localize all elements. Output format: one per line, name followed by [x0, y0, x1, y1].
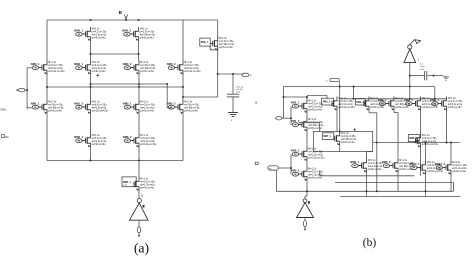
svg-text:M=1 2u: M=1 2u	[140, 179, 149, 181]
svg-text:ad=1.2p a=1p: ad=1.2p a=1p	[452, 168, 467, 170]
transistor NM2_2	[167, 100, 200, 114]
svg-text:M=1 1u: M=1 1u	[422, 98, 431, 100]
svg-text:ad=2.2p a=2p: ad=2.2p a=2p	[92, 108, 107, 110]
svg-text:PM5_2: PM5_2	[291, 168, 300, 172]
node A-C4	[166, 83, 168, 85]
node B-C3	[138, 86, 140, 88]
label plus a	[96, 73, 99, 79]
wire b bus	[284, 86, 435, 88]
transistor NM7_1 boxed	[322, 132, 356, 146]
label plus b	[353, 127, 356, 133]
ground b top	[443, 76, 449, 81]
svg-text:w=4.2u l=.35u: w=4.2u l=.35u	[140, 105, 155, 107]
svg-text:M=1 2u: M=1 2u	[140, 62, 149, 64]
svg-text:ad=1.2p a=1p: ad=1.2p a=1p	[368, 166, 383, 168]
wire bus right drop	[434, 87, 436, 99]
node rail-C2	[90, 19, 92, 21]
port NC left	[2, 135, 10, 139]
wire inm drop	[275, 170, 277, 191]
wire net 175	[320, 175, 415, 177]
wire tailbus to NM5	[138, 161, 140, 178]
wire cascode net B	[47, 86, 183, 88]
svg-text:NM0_2: NM0_2	[123, 62, 132, 66]
svg-text:w=4.2u l=.35u: w=4.2u l=.35u	[448, 101, 463, 103]
ground a	[228, 113, 238, 123]
svg-text:ad=1.2p a=1p: ad=1.2p a=1p	[92, 35, 107, 37]
svg-text:w=4.2u l=.35u: w=4.2u l=.35u	[92, 138, 107, 140]
node B-C4	[182, 86, 184, 88]
node bias tap	[409, 75, 411, 77]
wire C1 row2-row3	[46, 75, 48, 101]
svg-text:ad=.98p a=.9p: ad=.98p a=.9p	[48, 108, 64, 110]
svg-text:ad=1.2p a=1p: ad=1.2p a=1p	[140, 108, 155, 110]
svg-text:ad=.98p a=.9p: ad=.98p a=.9p	[184, 108, 200, 110]
wire bias drop to row3 gate	[167, 84, 171, 108]
wire C2 row1-row2	[90, 41, 92, 61]
wire tail bus	[47, 160, 183, 162]
wire net 182	[335, 182, 454, 184]
svg-text:CM3_: CM3_	[0, 108, 7, 112]
wire output	[218, 73, 242, 75]
svg-text:M=1 2u: M=1 2u	[395, 98, 404, 100]
wire cascode net A	[91, 83, 168, 85]
transistor PM0 right	[200, 37, 235, 51]
node gate-in	[26, 89, 28, 91]
svg-text:w=6.4u l=.35u: w=6.4u l=.35u	[184, 65, 199, 67]
svg-text:pd=9u ps=9u: pd=9u ps=9u	[92, 144, 106, 146]
svg-text:NM3_1: NM3_1	[31, 62, 40, 66]
node tricm-bus	[339, 86, 341, 88]
node r1-353	[353, 98, 355, 100]
svg-text:w=4.2u l=.35u: w=4.2u l=.35u	[140, 182, 155, 184]
svg-text:pd=9u ps=9u: pd=9u ps=9u	[140, 188, 154, 190]
svg-text:NM1_2: NM1_2	[74, 101, 83, 105]
transistor NM8_1 boxed	[408, 134, 438, 148]
svg-text:NM2_2: NM2_2	[167, 101, 176, 105]
svg-text:NM9_1: NM9_1	[350, 160, 359, 164]
node r1-434	[434, 98, 436, 100]
svg-text:ad=2.2p a=2p: ad=2.2p a=2p	[422, 141, 437, 143]
transistor NM5_1	[122, 177, 156, 191]
wire b row1 top bus	[340, 98, 447, 100]
wire v451 src	[450, 175, 452, 192]
node C4-97	[182, 96, 184, 98]
wire b tri drop	[409, 63, 411, 99]
wire C4 row3-tail	[182, 114, 184, 161]
svg-text:w=6.4u l=.35u: w=6.4u l=.35u	[308, 152, 323, 154]
transistor PM4_1	[430, 97, 463, 111]
wire pair low src	[306, 131, 308, 147]
transistor NM9_2	[382, 159, 415, 173]
wire b2 out	[304, 218, 306, 221]
svg-text:M=1 2u: M=1 2u	[92, 29, 101, 31]
svg-text:pd=13u ps=13u: pd=13u ps=13u	[48, 71, 65, 73]
buffer bubble b top	[408, 45, 412, 49]
node v424-191	[425, 190, 427, 192]
svg-text:NM2_1: NM2_1	[123, 101, 132, 105]
transistor NM3_2	[167, 61, 201, 75]
svg-text:m: m	[326, 80, 328, 82]
svg-text:M=1 2u: M=1 2u	[92, 135, 101, 137]
transistor NM0_1	[74, 61, 107, 75]
wire cap to gnd	[232, 97, 234, 113]
transistor NM10_1	[409, 161, 443, 175]
wire v366 down	[369, 111, 377, 192]
node bias mid	[433, 75, 435, 77]
op-amp buffer B1	[404, 49, 420, 63]
svg-text:ad=2.2p a=2p: ad=2.2p a=2p	[140, 141, 155, 143]
svg-text:PM1_2: PM1_2	[291, 119, 300, 123]
node n130	[339, 131, 341, 133]
svg-text:M=1 2u: M=1 2u	[140, 29, 149, 31]
node tri-bus	[409, 86, 411, 88]
wire pairlow src	[306, 181, 308, 191]
wire v453 link	[453, 183, 455, 192]
node C3-54	[138, 53, 140, 55]
wire gate stub row2	[27, 67, 32, 69]
wire net 142	[373, 142, 460, 144]
node inp	[290, 117, 292, 119]
svg-text:+: +	[353, 127, 356, 133]
transistor NM0_2	[123, 61, 156, 75]
flag marker	[410, 40, 421, 45]
transistor NM6_2	[123, 134, 157, 148]
svg-text:w=2.8u l=.35u: w=2.8u l=.35u	[48, 105, 63, 107]
wire C1 row3-tail	[46, 114, 48, 161]
svg-text:m: m	[269, 167, 271, 170]
wire v451 up	[450, 143, 452, 161]
svg-text:pd=13u ps=13u: pd=13u ps=13u	[338, 107, 355, 109]
wire C3 row4-tailbus	[138, 148, 140, 161]
svg-text:pd=6u ps=6u: pd=6u ps=6u	[184, 111, 198, 113]
svg-text:ad=1.2p a=1p: ad=1.2p a=1p	[308, 107, 323, 109]
svg-text:PM1_1: PM1_1	[291, 100, 300, 104]
buffer bubble a	[137, 199, 141, 203]
svg-text:w=2.8u l=.35u: w=2.8u l=.35u	[219, 41, 234, 43]
wire nm7 src	[339, 146, 341, 152]
transistor NM4_2	[122, 27, 155, 41]
wire left rail drop	[46, 20, 48, 61]
svg-text:M=1 1u: M=1 1u	[92, 102, 101, 104]
node B-C1	[46, 86, 48, 88]
svg-text:ad=.98p a=.9p: ad=.98p a=.9p	[308, 125, 324, 127]
svg-text:pd=13u ps=13u: pd=13u ps=13u	[308, 158, 325, 160]
node out	[217, 73, 219, 75]
label (a)	[134, 240, 149, 256]
svg-text:w=4.2u l=.35u: w=4.2u l=.35u	[92, 65, 107, 67]
transistor PM1_1	[291, 99, 324, 113]
svg-text:w=2.8u l=.35u: w=2.8u l=.35u	[140, 32, 155, 34]
svg-text:w=4.2u l=.35u: w=4.2u l=.35u	[92, 32, 107, 34]
wire v446 down	[446, 111, 448, 143]
port INM	[268, 166, 278, 171]
node v424-142	[425, 142, 427, 144]
svg-text:ad=1.2p a=1p: ad=1.2p a=1p	[140, 185, 155, 187]
svg-text:NM9_2: NM9_2	[382, 160, 391, 164]
svg-text:pd=6u ps=6u: pd=6u ps=6u	[341, 142, 355, 144]
svg-text:ad=.98p a=.9p: ad=.98p a=.9p	[140, 35, 156, 37]
wire pairlow drain	[306, 146, 308, 149]
svg-text:w=2.8u l=.35u: w=2.8u l=.35u	[184, 105, 199, 107]
svg-text:+: +	[96, 73, 99, 79]
wire bias to gnd	[427, 75, 443, 77]
svg-text:w=6.4u l=.35u: w=6.4u l=.35u	[140, 138, 155, 140]
svg-text:w=2.8u l=.35u: w=2.8u l=.35u	[341, 136, 356, 138]
svg-text:M=1 2u: M=1 2u	[308, 101, 317, 103]
wire v337 down	[336, 111, 338, 132]
wire pairlow to tri	[305, 191, 307, 199]
wire b gate line low	[290, 154, 292, 174]
transistor NM1_2	[74, 100, 108, 114]
svg-text:ad=2.2p a=2p: ad=2.2p a=2p	[184, 68, 199, 70]
label (b)	[363, 237, 377, 249]
svg-text:(b): (b)	[363, 237, 377, 249]
svg-text:pd=9u ps=9u: pd=9u ps=9u	[452, 171, 466, 173]
wire net 122	[299, 122, 320, 124]
svg-text:M=1 2u: M=1 2u	[452, 162, 461, 164]
wire b bus left drop	[283, 87, 285, 119]
svg-text:NM0_1: NM0_1	[74, 62, 83, 66]
svg-text:M=1 1u: M=1 1u	[140, 135, 149, 137]
wire C2 row3-row4	[90, 114, 92, 134]
svg-text:PM2_2: PM2_2	[356, 101, 364, 104]
svg-text:pd=13u ps=13u: pd=13u ps=13u	[427, 171, 444, 173]
svg-text:ad=2.2p a=2p: ad=2.2p a=2p	[338, 104, 353, 106]
wire cap drop	[232, 74, 234, 94]
svg-text:pd=6u ps=6u: pd=6u ps=6u	[308, 128, 322, 130]
svg-text:M=1 1u: M=1 1u	[184, 62, 193, 64]
svg-text:PM4_1: PM4_1	[430, 98, 439, 102]
svg-text:M=1 2u: M=1 2u	[368, 160, 377, 162]
svg-text:M=1 2u: M=1 2u	[48, 102, 57, 104]
svg-text:pd=6u ps=6u: pd=6u ps=6u	[48, 111, 62, 113]
svg-text:NM10_1: NM10_1	[409, 162, 420, 166]
port OUTA	[137, 227, 141, 237]
svg-text:M=1 2u: M=1 2u	[399, 160, 408, 162]
transistor PM3_1	[378, 97, 411, 111]
node cap	[232, 73, 234, 75]
wire C3 row1-row2	[138, 41, 140, 61]
wire b pairtop link	[307, 96, 327, 99]
node A-C2	[90, 83, 92, 85]
svg-text:pd=13u ps=13u: pd=13u ps=13u	[422, 144, 439, 146]
node tail-C3	[138, 160, 140, 162]
node v446-142	[446, 142, 448, 144]
svg-text:pd=13u ps=13u: pd=13u ps=13u	[184, 71, 201, 73]
svg-text:pd=13u ps=13u: pd=13u ps=13u	[140, 144, 157, 146]
svg-text:m=1: m=1	[420, 69, 425, 71]
svg-text:NM1_1: NM1_1	[31, 101, 40, 105]
node v376-191	[376, 190, 378, 192]
svg-text:pd=13u ps=13u: pd=13u ps=13u	[422, 107, 439, 109]
svg-text:B: B	[255, 101, 257, 105]
transistor NM10_2	[435, 161, 468, 175]
wire v397 src	[397, 173, 399, 192]
svg-text:pd=6u ps=6u: pd=6u ps=6u	[140, 38, 154, 40]
wire v424 src	[425, 175, 427, 197]
svg-text:NM10_2: NM10_2	[435, 162, 446, 166]
capacitor C0	[227, 86, 244, 97]
svg-text:(a): (a)	[134, 240, 149, 256]
label edge mark	[255, 162, 258, 164]
svg-text:ad=.98p a=.9p: ad=.98p a=.9p	[140, 68, 156, 70]
svg-text:pd=9u ps=9u: pd=9u ps=9u	[92, 38, 106, 40]
wire bus drop 353	[353, 87, 355, 99]
node A-C3	[138, 83, 140, 85]
node tail-C2	[90, 160, 92, 162]
node C2-54	[90, 53, 92, 55]
transistor NM6_1	[74, 134, 107, 148]
node inm	[290, 167, 292, 169]
node B-C2	[90, 86, 92, 88]
transistor PM2_1 boxed	[322, 97, 355, 111]
svg-text:pd=9u ps=9u: pd=9u ps=9u	[448, 107, 462, 109]
svg-text:NM4_2: NM4_2	[122, 28, 131, 32]
svg-text:pd=9u ps=9u: pd=9u ps=9u	[370, 107, 384, 109]
svg-text:pd=13u ps=13u: pd=13u ps=13u	[92, 111, 109, 113]
svg-text:M=1 1u: M=1 1u	[422, 135, 431, 137]
transistor NM4_1	[74, 27, 107, 41]
svg-text:NM6_2: NM6_2	[123, 135, 132, 139]
svg-text:PM5_1: PM5_1	[291, 148, 300, 152]
label edge b	[255, 101, 257, 105]
transistor NM1_1	[31, 100, 64, 114]
svg-text:pd=6u ps=6u: pd=6u ps=6u	[219, 47, 233, 49]
port TRICM	[326, 78, 340, 86]
wire v370 src	[366, 173, 368, 197]
wire pair mid up	[306, 113, 308, 117]
svg-text:M=1 2u: M=1 2u	[308, 119, 317, 121]
svg-text:pd=9u ps=9u: pd=9u ps=9u	[308, 110, 322, 112]
svg-text:ad=1.2p a=1p: ad=1.2p a=1p	[92, 68, 107, 70]
wire row3out to outnode	[183, 96, 218, 98]
wire inp	[282, 117, 291, 119]
transistor PM1_2	[291, 117, 324, 131]
wire nm8 src	[420, 148, 422, 176]
svg-text:NM5_1: NM5_1	[123, 181, 131, 184]
transistor NM2_1	[123, 100, 156, 114]
svg-text:pd=9u ps=9u: pd=9u ps=9u	[140, 111, 154, 113]
transistor PM3_2	[404, 97, 438, 111]
port TRIOUT	[242, 73, 252, 77]
wire b gate line up	[290, 106, 292, 124]
wire C3 row3-row4	[138, 114, 140, 134]
svg-text:ad=1.2p a=1p: ad=1.2p a=1p	[92, 141, 107, 143]
node pairtop	[306, 96, 308, 98]
svg-text:NM7_1: NM7_1	[323, 135, 331, 138]
svg-text:PM3_1: PM3_1	[378, 98, 387, 102]
svg-text:M=1 2u: M=1 2u	[92, 62, 101, 64]
svg-text:w=6.4u l=.35u: w=6.4u l=.35u	[92, 105, 107, 107]
svg-text:ad=.98p a=.9p: ad=.98p a=.9p	[219, 44, 235, 46]
node b left	[283, 96, 285, 98]
wire C3 row2-row3	[138, 75, 140, 101]
svg-text:pd=6u ps=6u: pd=6u ps=6u	[395, 107, 409, 109]
svg-text:PM2_1: PM2_1	[323, 101, 331, 104]
port IN	[16, 88, 27, 92]
wire gate line left	[26, 68, 28, 109]
wire pairlow mid	[306, 161, 308, 167]
wire gate stub row3	[27, 107, 32, 109]
wire net 191	[276, 190, 453, 192]
svg-text:ad=.98p a=.9p: ad=.98p a=.9p	[341, 139, 357, 141]
transistor NM3_1	[31, 61, 65, 75]
svg-text:ad=1.2p a=1p: ad=1.2p a=1p	[448, 104, 463, 106]
wire C2 row2-row3	[90, 75, 92, 101]
op-amp buffer A1	[129, 203, 148, 220]
svg-text:M=1 2u: M=1 2u	[448, 98, 457, 100]
svg-text:PM0_1: PM0_1	[201, 41, 209, 44]
svg-text:NM4_1: NM4_1	[74, 28, 83, 32]
node tri-b	[306, 190, 308, 192]
svg-text:w=2.8u l=.35u: w=2.8u l=.35u	[140, 65, 155, 67]
svg-text:pd=9u ps=9u: pd=9u ps=9u	[308, 178, 322, 180]
svg-text:w=6.4u l=.35u: w=6.4u l=.35u	[422, 138, 437, 140]
node r1-409	[409, 98, 411, 100]
label CM3	[0, 108, 7, 112]
wire C2 row4-tailbus	[90, 148, 92, 161]
wire right column	[217, 20, 219, 97]
svg-text:M=1 1u: M=1 1u	[48, 62, 57, 64]
svg-text:w=4.2u l=.35u: w=4.2u l=.35u	[308, 104, 323, 106]
wire buffer out	[138, 220, 140, 227]
wire NM5 to buffer	[139, 191, 143, 198]
svg-text:w=4.2u l=.35u: w=4.2u l=.35u	[308, 172, 323, 174]
wire v394 down	[376, 111, 398, 159]
wire b left top	[284, 96, 308, 98]
node v370-191	[366, 190, 368, 192]
transistor PM2_2 boxed	[355, 97, 385, 111]
transistor NM9_1	[350, 152, 383, 173]
svg-text:w=6.4u l=.35u: w=6.4u l=.35u	[48, 65, 63, 67]
wire v319 link	[319, 123, 321, 132]
svg-text:w=4.2u l=.35u: w=4.2u l=.35u	[452, 165, 467, 167]
svg-text:w=6.4u l=.35u: w=6.4u l=.35u	[338, 101, 353, 103]
svg-text:M=1 2u: M=1 2u	[308, 169, 317, 171]
transistor PM5_2	[291, 167, 324, 181]
wire v319 gate	[319, 171, 321, 176]
port OUTB	[303, 221, 306, 231]
wire TRICM drop	[339, 87, 341, 132]
svg-text:M=1 2u: M=1 2u	[341, 133, 350, 135]
svg-text:M=1 2u: M=1 2u	[219, 38, 228, 40]
wire nm8 drain	[420, 111, 422, 134]
wire C4 row2-row3	[182, 75, 184, 101]
svg-text:ad=2.2p a=2p: ad=2.2p a=2p	[48, 68, 63, 70]
box summing outline	[314, 132, 373, 152]
wire row1 source bus	[91, 53, 139, 55]
svg-text:c=1p: c=1p	[420, 66, 426, 68]
wire VDD rail	[47, 19, 218, 21]
transistor PM5_1	[291, 147, 325, 161]
wire inm	[278, 167, 291, 169]
wire pair up drain	[306, 97, 308, 99]
svg-text:M=1 1u: M=1 1u	[308, 149, 317, 151]
svg-text:NM8_1: NM8_1	[409, 137, 417, 140]
svg-text:pd=6u ps=6u: pd=6u ps=6u	[140, 71, 154, 73]
svg-text:ad=2.2p a=2p: ad=2.2p a=2p	[308, 155, 323, 157]
svg-text:NC: NC	[5, 136, 9, 139]
op-amp buffer B2	[297, 201, 314, 217]
svg-text:M=1 2u: M=1 2u	[140, 102, 149, 104]
node bus-353	[353, 86, 355, 88]
wire right rail-column drop	[182, 20, 184, 61]
svg-text:M=1 2u: M=1 2u	[184, 102, 193, 104]
node v451-142	[450, 142, 452, 144]
buffer bubble b bot	[303, 199, 307, 203]
wire v424 up	[425, 143, 427, 161]
svg-text:m=1: m=1	[236, 92, 241, 94]
